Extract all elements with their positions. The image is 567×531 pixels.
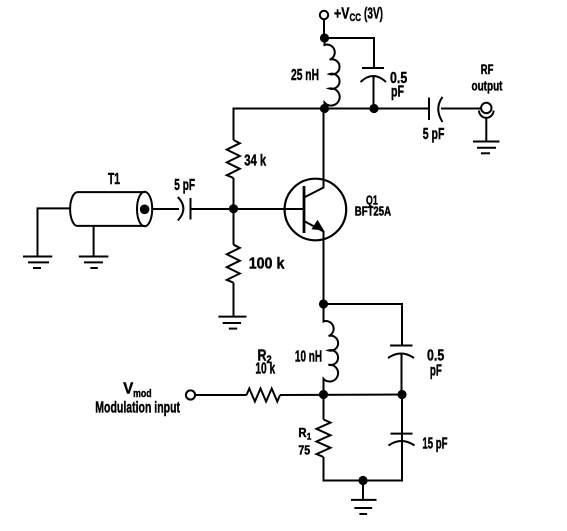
wire base node to transistor base	[234, 208, 304, 210]
capacitor 15 pF : flat plate	[391, 433, 413, 435]
wire R2 to mod node	[280, 394, 402, 397]
svg-text:V: V	[123, 380, 133, 397]
capacitor 0.5pF top : flat plate	[362, 67, 384, 69]
resistor 34 k	[227, 140, 240, 178]
wire 0.5pF bottom to mod rail	[401, 355, 403, 395]
wire 34k to base node	[233, 178, 235, 209]
svg-text:5 pF: 5 pF	[174, 177, 195, 194]
wire bottom rail	[324, 394, 403, 481]
wire T1 to 5pF	[152, 208, 179, 210]
RF jack cup	[479, 111, 494, 118]
svg-text:25 nH: 25 nH	[291, 67, 319, 84]
wire base node to 100k	[233, 209, 235, 245]
svg-text:75: 75	[298, 442, 310, 457]
capacitor 0.5pF bottom : flat plate	[390, 345, 413, 347]
terminal +VCC	[320, 11, 328, 19]
inductor 25 nH	[325, 38, 340, 109]
resistor 100 k	[227, 245, 240, 283]
resonator T1 body	[70, 192, 152, 227]
svg-text:T1: T1	[108, 171, 120, 188]
ground T1 left	[23, 257, 52, 269]
svg-text:34 k: 34 k	[244, 153, 266, 170]
node mod right junction	[397, 390, 406, 399]
node VCC junction	[320, 33, 329, 42]
capacitor 0.5pF top : curved plate	[361, 76, 387, 82]
ground 100k	[218, 317, 246, 329]
capacitor 0.5pF bottom : curved plate	[388, 354, 414, 359]
transistor Q1 collector diagonal	[304, 109, 324, 198]
wire 0.5pF top to rail	[373, 77, 375, 109]
capacitor 15 pF : curved plate	[389, 441, 415, 446]
ground T1 bottom	[79, 257, 109, 269]
wire T1 bottom tap	[93, 226, 95, 257]
transistor Q1 base bar	[303, 186, 306, 233]
svg-text:pF: pF	[391, 84, 404, 101]
svg-text:1: 1	[307, 431, 312, 442]
terminal Vmod	[186, 390, 195, 399]
svg-text:100 k: 100 k	[249, 256, 285, 273]
wire top rail	[234, 108, 430, 110]
svg-text:output: output	[472, 78, 503, 94]
wire T1 left lead	[38, 208, 71, 256]
svg-text:mod: mod	[133, 388, 152, 400]
wire node to 0.5pF top	[325, 38, 375, 68]
node emitter junction	[319, 299, 328, 308]
node base divider junction	[229, 204, 238, 213]
svg-text:(3V): (3V)	[364, 6, 383, 23]
capacitor 5 pF input : flat plate	[190, 198, 192, 220]
inductor 10 nH	[324, 304, 339, 395]
wire bottom node to ground	[362, 481, 364, 500]
wire VCC terminal to node	[323, 20, 325, 39]
wire 5pF to RF terminal	[441, 108, 481, 110]
ground bottom	[351, 500, 377, 514]
svg-text:BFT25A: BFT25A	[355, 204, 391, 218]
svg-text:Modulation input: Modulation input	[95, 400, 180, 417]
wire 100k to ground	[233, 283, 235, 317]
resistor R2 10k	[247, 389, 281, 402]
svg-text:15 pF: 15 pF	[422, 436, 447, 453]
svg-text:10 nH: 10 nH	[295, 349, 322, 366]
node collector rail junction	[320, 104, 329, 113]
svg-text:+V: +V	[334, 6, 350, 23]
transistor Q1 emitter arrow	[312, 220, 325, 231]
transistor Q1 emitter diagonal	[304, 221, 324, 304]
svg-text:5 pF: 5 pF	[423, 126, 445, 143]
transistor Q1 circle	[285, 179, 347, 241]
capacitor 5 pF output : flat plate	[428, 98, 430, 121]
node mod left junction	[319, 390, 328, 399]
wire Vmod to R2	[195, 394, 246, 396]
svg-text:CC: CC	[350, 12, 362, 24]
svg-text:pF: pF	[430, 363, 442, 380]
wire R1 to bottom rail	[323, 457, 325, 481]
wire mod node to R1	[323, 395, 325, 420]
capacitor 5 pF input : curved plate	[178, 197, 184, 221]
wire 5pF to base node	[192, 208, 234, 210]
resistor R1 75	[317, 420, 331, 458]
terminal RF output	[481, 103, 491, 113]
node T1 output dot	[140, 205, 150, 215]
capacitor 5 pF output : curved plate	[438, 97, 442, 122]
ground RF output	[473, 142, 500, 154]
node 0.5pF rail junction	[369, 104, 378, 113]
node bottom ground junction	[358, 476, 367, 485]
svg-text:RF: RF	[481, 62, 494, 77]
wire rail corner to 34k	[233, 108, 235, 141]
wire emitter node to right column	[324, 304, 403, 346]
wire RF terminal to ground	[485, 118, 487, 142]
svg-text:10 k: 10 k	[255, 361, 275, 378]
